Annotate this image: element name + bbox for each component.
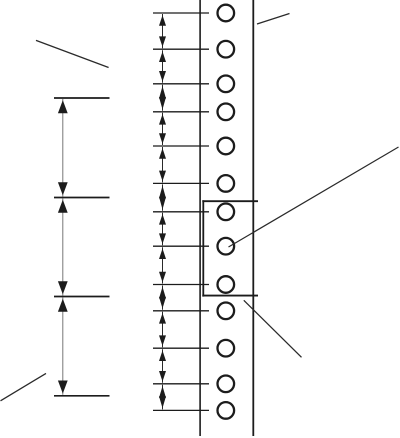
leader line lower left xyxy=(1,373,47,400)
leader line to hole 8 xyxy=(229,147,399,247)
hole spacing dimension arrow 4 (between hole 4 and hole 5) xyxy=(159,113,166,145)
hole 8 xyxy=(218,238,235,255)
hole 13 xyxy=(218,402,235,419)
hole 2 xyxy=(218,41,235,58)
hole 9 centerline tick xyxy=(153,284,209,286)
hole 8 centerline tick xyxy=(153,245,209,247)
hole 5 centerline tick xyxy=(153,145,209,147)
rack unit height dimension arrow 3 xyxy=(58,298,68,395)
hole 3 xyxy=(218,76,235,93)
hole 7 centerline tick xyxy=(153,211,209,213)
hole spacing dimension arrow 1 (between hole 1 and hole 2) xyxy=(159,14,166,48)
hole spacing dimension arrow 6 (between hole 6 and hole 7) xyxy=(159,184,166,210)
rack unit boundary tick 1 xyxy=(54,97,110,99)
hole 10 xyxy=(218,303,235,320)
leader line upper right xyxy=(257,14,290,25)
hole 5 xyxy=(218,138,235,155)
hole spacing dimension arrow 12 (between hole 12 and hole 13) xyxy=(159,385,166,410)
rack unit boundary tick 4 xyxy=(54,395,110,397)
rack unit boundary tick 2 xyxy=(54,197,110,199)
rail right edge xyxy=(252,0,254,436)
hole spacing dimension arrow 5 (between hole 5 and hole 6) xyxy=(159,147,166,182)
rail left edge xyxy=(199,0,201,436)
leader line to detail box corner xyxy=(244,300,302,357)
hole 13 centerline tick xyxy=(153,409,209,411)
hole 12 centerline tick xyxy=(153,383,209,385)
hole 11 xyxy=(218,340,235,357)
hole 9 xyxy=(218,276,235,293)
hole 12 xyxy=(218,376,235,393)
hole 11 centerline tick xyxy=(153,347,209,349)
hole 3 centerline tick xyxy=(153,83,209,85)
hole 6 xyxy=(218,175,235,192)
rack unit boundary tick 3 xyxy=(54,296,110,298)
hole spacing dimension arrow 2 (between hole 2 and hole 3) xyxy=(159,50,166,83)
hole 7 xyxy=(218,204,235,221)
hole spacing dimension arrow 11 (between hole 11 and hole 12) xyxy=(159,349,166,383)
hole spacing dimension arrow 10 (between hole 10 and hole 11) xyxy=(159,312,166,347)
rack unit height dimension arrow 2 xyxy=(58,199,68,296)
hole 6 centerline tick xyxy=(153,182,209,184)
rack unit height dimension arrow 1 xyxy=(58,99,68,197)
detail box left edge xyxy=(202,200,204,296)
detail box top edge xyxy=(202,200,258,202)
hole spacing dimension arrow 7 (between hole 7 and hole 8) xyxy=(159,213,166,245)
hole 1 centerline tick xyxy=(153,12,209,14)
hole spacing dimension arrow 3 (between hole 3 and hole 4) xyxy=(159,85,166,111)
detail box bottom edge xyxy=(202,295,258,297)
leader line upper left xyxy=(36,40,109,67)
hole spacing dimension arrow 9 (between hole 9 and hole 10) xyxy=(159,286,166,310)
hole 4 centerline tick xyxy=(153,111,209,113)
hole 10 centerline tick xyxy=(153,310,209,312)
hole 1 xyxy=(218,5,235,22)
hole 4 xyxy=(218,104,235,121)
hole 2 centerline tick xyxy=(153,48,209,50)
hole spacing dimension arrow 8 (between hole 8 and hole 9) xyxy=(159,247,166,283)
